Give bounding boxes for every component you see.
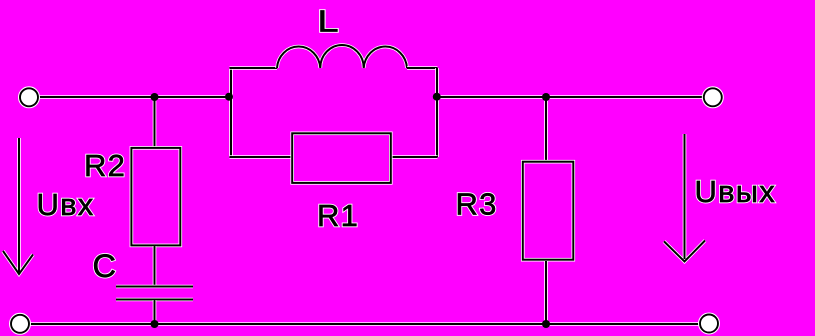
svg-text:R3: R3 [456,187,498,222]
node junction box right [433,93,441,101]
inductor L (3 humps) [277,45,407,68]
resistor R3 [523,162,574,260]
svg-text:R1: R1 [317,198,359,233]
node junction bottom right [542,320,550,328]
node junction top left (R2 branch) [151,93,159,101]
arrow Uvyx (output voltage) [664,134,705,262]
capacitor C top plate [116,285,193,289]
svg-text:Uвых: Uвых [695,174,776,209]
wire box bottom-left to R1 [230,155,292,159]
wire capacitor to bottom rail [153,300,157,324]
resistor R2 [131,148,180,246]
wire parallel-box left vertical [229,68,233,157]
wire top rail right segment [437,95,704,99]
capacitor C bottom plate [116,298,193,302]
wire R1 to box bottom-right [392,155,438,159]
resistor R1 [292,133,391,183]
wire bottom rail [29,322,700,326]
wire R3 to bottom rail [544,261,548,324]
label Uvx [37,187,95,222]
wire left branch: top node to R2 [153,97,157,147]
node junction bottom left [151,320,159,328]
node junction top right (R3 branch) [542,93,550,101]
arrow Uvx (input voltage) [3,138,33,274]
wire box top-left to inductor [230,66,278,70]
svg-text:C: C [93,248,118,284]
wire right branch: top node to R3 [544,97,548,161]
terminal input bottom [11,315,29,333]
wire inductor to box top-right [407,66,438,70]
wire R2 to capacitor [153,246,157,286]
terminal input top [20,88,38,106]
label R1 [317,198,359,233]
wire top rail left segment [38,95,229,99]
label R2 [84,148,126,183]
label C [93,248,118,284]
svg-text:L: L [318,5,340,39]
terminal output top [704,88,722,106]
node junction box left [225,93,233,101]
svg-text:R2: R2 [84,148,126,183]
terminal output bottom [700,315,718,333]
svg-text:Uвх: Uвх [37,187,95,222]
label Uvyx [695,174,776,209]
label L [318,5,340,39]
wire parallel-box right vertical [435,68,439,157]
label R3 [456,187,498,222]
